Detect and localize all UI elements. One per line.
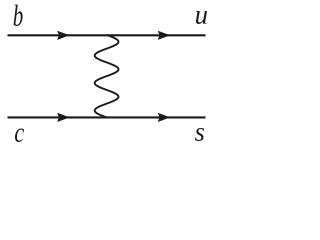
wire: top fermion line (b to u) [8, 34, 206, 36]
arrow on top line, left segment [57, 31, 69, 40]
label b (top-left quark) [14, 5, 23, 26]
label c (bottom-left quark) [15, 128, 24, 142]
label u (top-right quark) [196, 11, 207, 24]
wire: bottom fermion line (c to s) [8, 116, 206, 118]
label s (bottom-right quark) [195, 128, 204, 141]
boson: W wavy line between vertices [95, 35, 119, 118]
arrow on bottom line, left segment [57, 113, 69, 122]
arrow on bottom line, right segment [158, 113, 170, 122]
arrow on top line, right segment [158, 31, 170, 40]
